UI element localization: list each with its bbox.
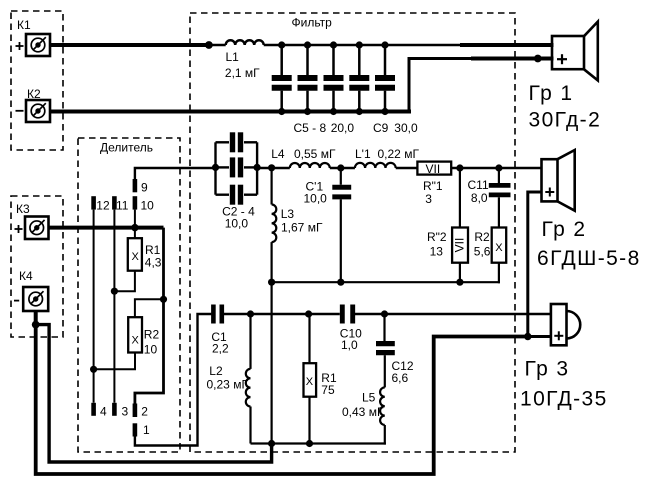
wire divider output to C2-4 bbox=[135, 168, 216, 179]
svg-text:6,6: 6,6 bbox=[392, 371, 409, 385]
svg-text:0,43 мГ: 0,43 мГ bbox=[342, 405, 384, 419]
junction dot C11 node bbox=[495, 164, 502, 171]
inductor L3 bbox=[272, 205, 277, 243]
junction dot K3 wire at tap line bbox=[131, 224, 138, 231]
svg-text:1,67 мГ: 1,67 мГ bbox=[281, 221, 323, 235]
divider tap 11 bar bbox=[112, 196, 117, 209]
junction dot R2 bottom on line 12 bbox=[90, 366, 97, 373]
junction dot L1 input bbox=[205, 41, 213, 49]
terminal K1 bbox=[26, 34, 50, 56]
capacitor C9 bbox=[375, 45, 395, 112]
junction dot C8 top bbox=[356, 41, 363, 48]
wire K1 to L1 bbox=[50, 43, 209, 47]
wire R"2 bottom lead bbox=[459, 263, 461, 283]
junction dot lower rail R1-75 bbox=[306, 440, 313, 447]
terminal K4 bbox=[23, 287, 48, 311]
wire R1-75 bottom lead bbox=[308, 397, 310, 444]
svg-text:2,2: 2,2 bbox=[212, 342, 229, 356]
svg-text:R"2: R"2 bbox=[427, 230, 447, 244]
capacitor C1prime bbox=[332, 168, 351, 282]
wire K4 outer bottom line to Gr2/Gr3 plus bbox=[36, 325, 528, 474]
wire line 12-4 bbox=[93, 210, 95, 403]
wire C10 to Gr3 bbox=[355, 313, 552, 315]
svg-text:1,0: 1,0 bbox=[341, 338, 358, 352]
svg-text:X: X bbox=[306, 376, 314, 388]
wire L1prime to R"1 bbox=[396, 167, 418, 169]
svg-text:C11: C11 bbox=[468, 178, 489, 192]
junction dot R1 bottom on line 11 bbox=[111, 288, 118, 295]
wire mid net down riser bbox=[271, 282, 273, 443]
wire K4 to junction bbox=[34, 311, 38, 325]
svg-text:3: 3 bbox=[122, 404, 129, 418]
wire thick feed to Gr1 plus bbox=[471, 57, 554, 61]
svg-text:Гр 3: Гр 3 bbox=[525, 358, 570, 381]
svg-text:Фильтр: Фильтр bbox=[292, 16, 333, 30]
svg-text:L'1: L'1 bbox=[355, 147, 371, 161]
resistor R"1 bbox=[417, 162, 451, 175]
svg-text:R2: R2 bbox=[144, 328, 160, 342]
junction dot lower rail mid riser bbox=[268, 440, 275, 447]
capacitor C5 bbox=[272, 45, 292, 112]
wire R2 top lead bbox=[135, 299, 164, 317]
resistor R1 75 bbox=[304, 363, 317, 397]
svg-text:К4: К4 bbox=[19, 269, 33, 283]
svg-text:0,55 мГ: 0,55 мГ bbox=[294, 147, 336, 161]
wire K2 bottom rail bbox=[50, 110, 411, 114]
wire R"1 to Gr2 bbox=[451, 167, 542, 169]
wire top rail L1 to C9 node bbox=[264, 44, 460, 47]
svg-text:12: 12 bbox=[96, 198, 110, 212]
wire line 11-3 bbox=[113, 210, 115, 403]
svg-text:L2: L2 bbox=[209, 364, 223, 378]
junction dot C2-4 left bbox=[212, 164, 219, 171]
svg-text:L5: L5 bbox=[362, 390, 376, 404]
inductor L1prime bbox=[355, 163, 396, 168]
wire L2 bottom lead bbox=[249, 407, 251, 444]
svg-text:6ГДШ-5-8: 6ГДШ-5-8 bbox=[537, 247, 641, 270]
svg-text:Делитель: Делитель bbox=[100, 141, 153, 155]
resistor R2 mid bbox=[492, 228, 507, 263]
svg-text:10,0: 10,0 bbox=[225, 216, 249, 230]
wire R1-75 top lead bbox=[308, 314, 310, 363]
wire K3 to divider bbox=[49, 226, 164, 230]
svg-text:К1: К1 bbox=[17, 18, 31, 32]
junction dot L2 node bbox=[247, 310, 254, 317]
dashed box Filter bbox=[190, 13, 515, 452]
svg-text:9: 9 bbox=[141, 180, 148, 194]
junction dot C5 top bbox=[278, 41, 285, 48]
dashed box Divider bbox=[78, 138, 180, 452]
svg-text:2: 2 bbox=[141, 405, 148, 419]
svg-text:0,22 мГ: 0,22 мГ bbox=[378, 147, 420, 161]
inductor L4 bbox=[290, 163, 330, 168]
divider tap 10 bar bbox=[133, 196, 138, 209]
inductor L1 bbox=[226, 40, 264, 45]
svg-text:4: 4 bbox=[100, 404, 107, 418]
svg-text:L3: L3 bbox=[281, 207, 295, 221]
junction dot Gr2 plus riser bbox=[524, 333, 531, 340]
wire C1 to C10 bbox=[224, 313, 340, 315]
svg-text:5,6: 5,6 bbox=[474, 245, 491, 259]
resistor R2 divider bbox=[128, 317, 142, 352]
resistor R1 divider bbox=[128, 238, 142, 271]
svg-text:Гр 2: Гр 2 bbox=[542, 218, 587, 241]
plus sign K3 bbox=[15, 225, 23, 233]
wire to Gr3 plus bbox=[528, 335, 552, 338]
svg-text:L1: L1 bbox=[226, 50, 240, 64]
wire riser to Gr2 plus bbox=[528, 192, 543, 337]
wire tap10 to R1 bbox=[134, 210, 136, 239]
svg-text:2,1 мГ: 2,1 мГ bbox=[225, 66, 260, 80]
wire C2-4 to L4 bbox=[257, 167, 290, 169]
wire K4 inner bottom line to lower rail bbox=[36, 325, 272, 462]
svg-text:1: 1 bbox=[143, 423, 150, 437]
svg-text:R"1: R"1 bbox=[423, 179, 443, 193]
junction dot C1prime node bbox=[337, 164, 344, 171]
junction dot C5 bottom bbox=[278, 108, 285, 115]
divider tap 12 bar bbox=[91, 196, 96, 209]
inductor L2 bbox=[246, 369, 251, 407]
speaker Gr3 tweeter bbox=[551, 304, 580, 345]
svg-text:75: 75 bbox=[321, 383, 335, 397]
wire L2 top lead bbox=[249, 314, 251, 369]
svg-text:11: 11 bbox=[116, 198, 129, 212]
svg-text:10: 10 bbox=[144, 343, 158, 357]
svg-text:X: X bbox=[132, 335, 140, 347]
svg-text:10,0: 10,0 bbox=[304, 192, 328, 206]
svg-text:10: 10 bbox=[141, 198, 155, 212]
capacitor C11 bbox=[489, 168, 511, 228]
junction dot C7 bottom bbox=[330, 108, 337, 115]
speaker Gr2 bbox=[542, 150, 575, 211]
junction dot mid rail L3 bbox=[268, 279, 275, 286]
junction dot C6 top bbox=[304, 41, 311, 48]
junction dot mid rail C1prime bbox=[337, 279, 344, 286]
capacitor C12 bbox=[376, 314, 395, 353]
divider tap 1 bar bbox=[133, 423, 138, 436]
svg-text:3: 3 bbox=[425, 192, 432, 206]
divider tap 2 bar bbox=[133, 404, 138, 418]
wire thick feed to Gr1 minus bbox=[460, 43, 554, 47]
wire lower ground rail bbox=[251, 442, 386, 444]
junction dot C8 bottom bbox=[356, 108, 363, 115]
svg-text:20,0: 20,0 bbox=[331, 121, 355, 135]
wire L3 top lead bbox=[271, 168, 273, 205]
plus sign K1 bbox=[16, 42, 24, 50]
divider tap 3 bar bbox=[112, 403, 117, 416]
svg-text:VII: VII bbox=[453, 238, 467, 253]
wire L4 to L1prime bbox=[330, 167, 355, 169]
capacitor C6 bbox=[298, 45, 318, 112]
svg-text:L4: L4 bbox=[271, 147, 285, 161]
wire L3 bottom to mid rail bbox=[271, 242, 273, 282]
junction dot R1-75 node bbox=[305, 310, 312, 317]
junction dot C12 node bbox=[381, 310, 388, 317]
wire riser to Gr1 plus bbox=[409, 59, 471, 112]
minus sign K4 bbox=[14, 300, 19, 302]
junction dot L3 node bbox=[268, 164, 275, 171]
junction dot R"2 node bbox=[456, 164, 463, 171]
wire R1 bottom to line 11 bbox=[114, 271, 134, 292]
svg-text:К3: К3 bbox=[16, 202, 30, 216]
capacitor C8 bbox=[349, 45, 369, 112]
svg-text:К2: К2 bbox=[27, 87, 41, 101]
svg-text:4,3: 4,3 bbox=[145, 256, 162, 270]
wire node to L1 bbox=[209, 44, 226, 46]
wire L5 bottom lead bbox=[384, 425, 386, 445]
wire tap 1 to C1 riser bbox=[135, 314, 212, 446]
inductor L5 bbox=[380, 387, 385, 425]
dashed box input terminals K3/K4 bbox=[11, 196, 63, 337]
resistor R"2 bbox=[452, 228, 468, 263]
junction dot C9 top bbox=[381, 41, 388, 48]
dashed box input terminals K1/K2 bbox=[11, 11, 63, 150]
terminal K2 bbox=[26, 100, 50, 122]
speaker Gr1 bbox=[552, 22, 598, 81]
junction dot K4 bbox=[32, 321, 40, 329]
junction dot Gr1 plus lead bbox=[534, 55, 542, 63]
svg-text:С5 - 8: С5 - 8 bbox=[294, 121, 327, 135]
svg-text:X: X bbox=[132, 251, 140, 263]
capacitor C10 bbox=[342, 305, 352, 324]
capacitor C7 bbox=[324, 45, 344, 112]
svg-text:10ГД-35: 10ГД-35 bbox=[520, 388, 608, 411]
svg-text:X: X bbox=[495, 242, 503, 254]
svg-text:Гр 1: Гр 1 bbox=[529, 82, 574, 105]
svg-text:30,0: 30,0 bbox=[394, 121, 418, 135]
svg-text:13: 13 bbox=[430, 245, 444, 259]
divider tap 4 bar bbox=[91, 403, 96, 416]
svg-text:0,23 мГ: 0,23 мГ bbox=[207, 378, 249, 392]
junction dot C6 bottom bbox=[304, 108, 311, 115]
junction dot C2-4 right bbox=[254, 164, 261, 171]
svg-text:30Гд-2: 30Гд-2 bbox=[529, 109, 602, 132]
junction dot C7 top bbox=[330, 41, 337, 48]
junction dot mid rail R"2 bbox=[456, 279, 463, 286]
capacitor group C2-4 bbox=[216, 132, 258, 204]
svg-text:С9: С9 bbox=[373, 121, 389, 135]
divider tap 9 bar bbox=[133, 179, 138, 192]
svg-text:VII: VII bbox=[426, 162, 441, 176]
wire mid ground rail bbox=[272, 281, 500, 283]
wire C12 to L5 bbox=[384, 355, 386, 387]
wire R2 bottom to line 12 bbox=[94, 353, 135, 370]
wire K3 node down to R2 top and taps bbox=[135, 228, 164, 404]
svg-text:R2: R2 bbox=[474, 230, 490, 244]
junction dot C9 bottom bbox=[381, 108, 388, 115]
junction dot R2 top bbox=[160, 296, 167, 303]
wire R"2 top lead bbox=[459, 168, 461, 228]
minus sign K2 bbox=[16, 110, 24, 112]
capacitor C1 bbox=[213, 305, 221, 324]
svg-text:8,0: 8,0 bbox=[471, 191, 488, 205]
terminal K3 bbox=[25, 217, 49, 240]
wire R2 bottom lead bbox=[498, 263, 500, 284]
